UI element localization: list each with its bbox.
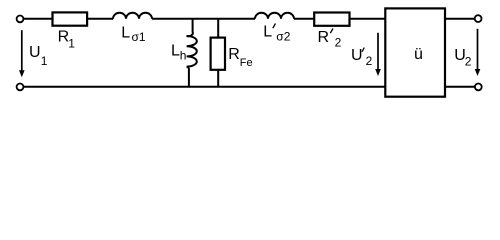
wire bottom rail right (445, 86, 475, 88)
arrow U1 (21, 30, 23, 72)
inductor L'σ2 (255, 13, 294, 19)
transformer box ü (385, 8, 445, 96)
inductor Lh (187, 19, 197, 87)
svg-text:Fe: Fe (240, 57, 253, 69)
inductor Lσ1 (113, 13, 152, 19)
wire top rail middle (152, 18, 255, 20)
svg-text:L: L (171, 43, 180, 60)
svg-text:R: R (228, 46, 240, 63)
svg-text:L: L (263, 24, 272, 41)
svg-text:R: R (318, 29, 330, 46)
terminal bottom-left (17, 84, 24, 91)
resistor R'2 (314, 13, 349, 26)
resistor RFe vertical (217, 19, 219, 38)
resistor R1 (53, 12, 88, 25)
terminal bottom-right (475, 84, 482, 91)
svg-text:2: 2 (465, 55, 472, 69)
svg-text:2: 2 (335, 35, 342, 49)
svg-text:U: U (351, 47, 363, 64)
wire top rail R2-box (349, 18, 385, 20)
svg-text:U: U (29, 44, 41, 61)
svg-text:h: h (180, 49, 187, 63)
arrow U'2 (377, 33, 379, 71)
svg-text:σ2: σ2 (276, 30, 290, 44)
svg-text:L: L (121, 25, 130, 42)
wire R1 to Lσ1 (87, 18, 113, 20)
svg-text:1: 1 (41, 54, 48, 68)
terminal top-left (17, 16, 24, 23)
wire top rail right (445, 18, 475, 20)
svg-text:1: 1 (68, 36, 75, 50)
svg-text:ü: ü (414, 46, 423, 63)
arrow U2 (477, 29, 479, 71)
wire bottom rail left (23, 86, 385, 88)
wire top rail left (23, 18, 53, 20)
wire top rail coil2-R2 (294, 18, 315, 20)
terminal top-right (475, 15, 482, 22)
svg-text:σ1: σ1 (132, 30, 146, 44)
svg-text:2: 2 (366, 54, 373, 68)
